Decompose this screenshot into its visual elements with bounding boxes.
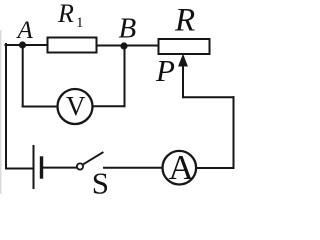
svg-text:A: A [169,148,195,187]
svg-text:S: S [92,166,109,195]
switch S lever [83,153,102,165]
wire: left vertical from A corner down [5,44,7,169]
scan edge shade [0,30,2,194]
wiper arrow shaft [182,65,184,97]
wire: switch to ammeter [104,167,162,169]
svg-text:R: R [57,0,74,28]
switch S pivot [77,163,83,169]
wire: left edge to R1 left [6,44,48,46]
wiper arrowhead P [178,54,188,67]
resistor R1 [48,38,97,53]
battery long plate [33,146,35,188]
svg-text:R: R [174,3,195,39]
wire: horizontal to wiper [183,96,234,98]
wire: ammeter to right corner [196,167,233,169]
svg-text:V: V [66,91,86,121]
wire: battery to switch [43,167,77,169]
wire: vertical from node B down to voltmeter [124,46,126,106]
wire: vertical from node A down to voltmeter [22,45,24,107]
node B junction dot [120,42,127,49]
resistor R (rheostat body) [159,39,210,54]
wire: R1 right through node B to R left [97,45,159,47]
wire: voltmeter right lead [93,105,125,107]
svg-text:A: A [16,17,34,44]
wire: bottom left to battery [6,168,34,170]
ammeter A1 body [163,151,197,185]
svg-text:P: P [155,53,175,88]
wire: voltmeter left lead [23,106,58,108]
svg-text:B: B [119,13,137,45]
svg-text:1: 1 [76,15,84,31]
node A junction dot [19,41,26,48]
wire: right vertical up [233,97,235,168]
voltmeter V1 body [58,89,93,124]
battery short plate [40,158,43,177]
